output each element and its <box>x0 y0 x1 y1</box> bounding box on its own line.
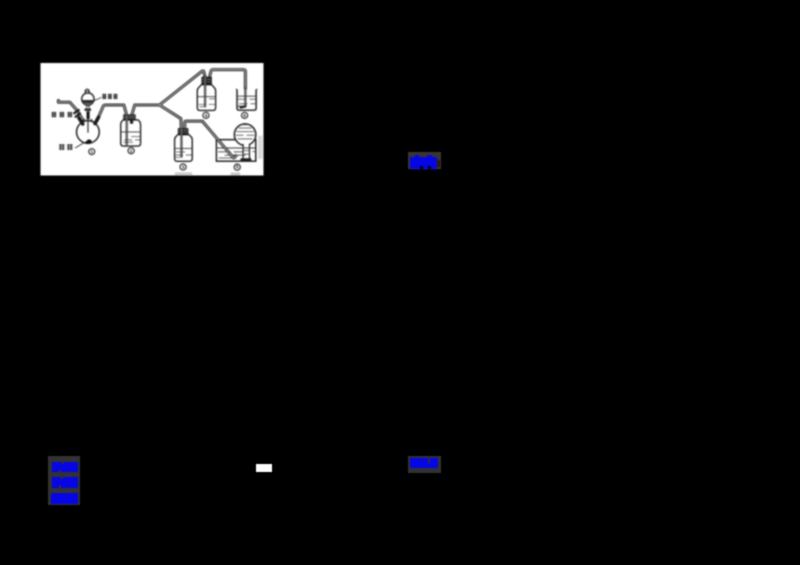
copper piece <box>85 140 92 144</box>
node 2 <box>128 148 134 154</box>
blue answer line 1 <box>52 462 78 473</box>
node 5 <box>234 164 240 170</box>
label danghuangjia <box>51 112 72 118</box>
wire junction up to bottle4 <box>159 71 204 105</box>
blue answer text 1 <box>410 157 437 169</box>
dark red tail mark <box>437 160 440 167</box>
label nongxiaosuan <box>102 94 117 99</box>
wire diagonal into trough <box>202 122 237 159</box>
node labels circled digits <box>89 113 248 171</box>
wire left vent tube <box>58 101 82 120</box>
beaker 6 <box>236 87 258 110</box>
chemistry figure panel <box>40 63 264 176</box>
trough water lines <box>217 147 255 149</box>
wire flask to bottle2 <box>98 105 127 119</box>
inverted flask in trough <box>234 124 256 161</box>
wire bottle2 to junction <box>132 105 160 115</box>
bottle 2 <box>121 115 141 147</box>
flask 1 <box>77 118 100 144</box>
label tongpian <box>59 144 73 150</box>
leader line to copper <box>75 143 85 149</box>
blue answer line 3 <box>51 493 78 504</box>
node 3 <box>180 164 186 170</box>
spring clamp <box>74 110 80 117</box>
inner delivery tube <box>87 119 89 133</box>
wire junction down to bottle3 <box>159 105 181 128</box>
node 4 <box>203 113 209 119</box>
right neck ground joint <box>95 118 98 124</box>
highlight box answer 1 <box>408 152 441 169</box>
trough 5 <box>216 140 255 162</box>
wire bottle3 out <box>185 122 203 129</box>
blue answer text 2 <box>410 458 438 468</box>
leader line to funnel <box>94 98 101 101</box>
highlight box answer stack left <box>48 456 80 505</box>
wire tubes light core <box>58 70 245 129</box>
white dash blank <box>256 464 272 472</box>
bottle 4 <box>197 75 215 110</box>
dropping funnel <box>82 90 94 120</box>
bottle 3 <box>175 129 193 162</box>
wire tubes dark outline <box>58 70 245 129</box>
node 1 <box>89 149 95 155</box>
faint smudges <box>175 173 192 176</box>
node 6 <box>242 113 248 119</box>
highlight box answer 2 <box>408 456 441 473</box>
left neck ground joint <box>79 118 83 124</box>
blue answer line 2 <box>52 477 78 488</box>
wire bottle4 to beaker6 <box>210 70 246 89</box>
neck flares <box>82 119 94 122</box>
